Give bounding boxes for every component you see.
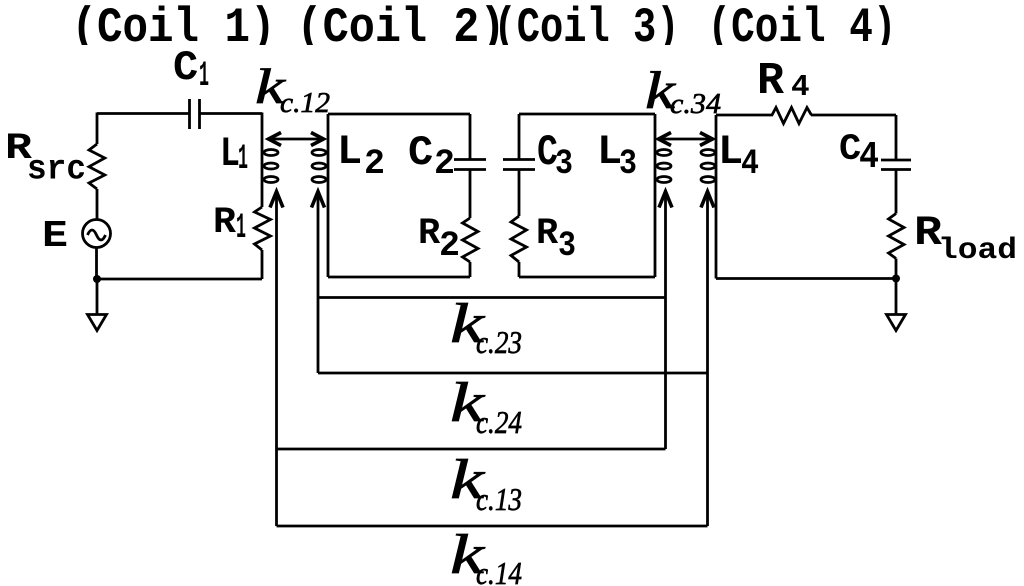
wire loop1 bottom <box>97 278 262 281</box>
svg-text:2: 2 <box>434 144 455 184</box>
svg-text:c.24: c.24 <box>476 404 522 440</box>
resistor Rload <box>889 214 905 259</box>
capacitor C3 <box>503 160 535 170</box>
inductor L1 <box>262 147 278 186</box>
svg-text:4: 4 <box>741 144 759 184</box>
capacitor C2 <box>454 160 486 170</box>
svg-text:R: R <box>536 213 559 255</box>
wire loop2 top <box>328 113 470 116</box>
resistor R3 <box>511 216 527 262</box>
svg-text:C: C <box>839 129 861 171</box>
inductor L3 <box>655 114 671 277</box>
wire loop3 left upper <box>518 114 521 159</box>
wire Rsrc to E <box>96 189 99 219</box>
label C2 <box>408 129 455 184</box>
resistor R4 <box>772 108 811 124</box>
wire R2 to bottom <box>469 262 472 277</box>
coupling line kc24 <box>318 372 708 375</box>
wire loop4 bottom <box>716 277 896 280</box>
label R3 <box>536 213 576 266</box>
svg-text:1: 1 <box>199 56 209 96</box>
wire loop1 left upper <box>96 113 99 145</box>
label R4 <box>757 56 810 107</box>
svg-text:c.12: c.12 <box>280 87 330 119</box>
ground right <box>887 315 906 331</box>
label Rload <box>914 209 1017 268</box>
label C4 <box>839 129 879 179</box>
wire Rload to bottom <box>895 259 898 279</box>
node dot left <box>93 275 101 283</box>
wire C4 to Rload <box>895 170 898 214</box>
svg-text:3: 3 <box>619 144 637 184</box>
resistor R1 <box>255 207 271 250</box>
wire R1 to L1 <box>261 186 264 207</box>
svg-text:L: L <box>718 128 743 176</box>
svg-text:1: 1 <box>238 139 248 179</box>
svg-text:c.14: c.14 <box>476 555 522 586</box>
svg-text:1: 1 <box>236 208 246 248</box>
coupling line kc23 <box>318 296 666 299</box>
svg-text:4: 4 <box>791 70 810 105</box>
arrow line L3 <box>659 192 672 450</box>
arrow line L1 <box>270 192 283 527</box>
svg-text:E: E <box>42 215 68 258</box>
wire E to bottom <box>95 248 98 280</box>
wire loop1 right lower <box>261 250 264 279</box>
label E <box>42 215 68 258</box>
label kc24 <box>450 372 522 440</box>
svg-text:c.23: c.23 <box>476 324 522 360</box>
title (Coil 3) <box>494 0 680 56</box>
label C3 <box>537 128 573 184</box>
inductor L2 <box>312 114 328 277</box>
resistor R2 <box>463 218 479 262</box>
svg-text:c.13: c.13 <box>476 481 522 517</box>
arrow line L2 <box>312 192 325 374</box>
title (Coil 4) <box>708 0 897 56</box>
label L1 <box>220 130 248 179</box>
wire C2 to R2 <box>469 170 472 218</box>
wire loop4 right upper <box>895 115 898 160</box>
wire loop1 top left <box>97 112 189 115</box>
coupling line kc14 <box>277 525 708 528</box>
title (Coil 1) <box>72 0 276 56</box>
ground left stem <box>96 279 99 314</box>
svg-text:4: 4 <box>859 136 879 179</box>
inductor L4 <box>701 115 716 279</box>
label kc12 <box>255 58 330 119</box>
svg-text:L: L <box>220 130 240 178</box>
wire loop1 top right <box>199 112 262 115</box>
source E <box>83 220 111 248</box>
ground left <box>88 315 107 331</box>
svg-text:3: 3 <box>558 226 576 266</box>
wire loop3 top <box>519 113 655 116</box>
label L3 <box>597 128 637 184</box>
ground right stem <box>895 279 898 315</box>
resistor Rsrc <box>89 144 105 189</box>
label L4 <box>718 128 759 184</box>
label kc23 <box>450 293 522 360</box>
svg-text:load: load <box>938 234 1017 268</box>
svg-text:C: C <box>173 44 198 92</box>
label kc14 <box>450 524 522 586</box>
svg-text:R: R <box>213 202 237 244</box>
svg-text:src: src <box>27 150 86 190</box>
svg-text:R: R <box>418 213 441 255</box>
arrow line L4 <box>701 192 714 527</box>
label Rsrc <box>5 128 86 190</box>
label kc13 <box>450 449 522 517</box>
label L2 <box>337 128 385 184</box>
node dot right <box>892 275 900 283</box>
label kc34 <box>645 62 721 120</box>
svg-text:2: 2 <box>439 226 460 266</box>
wire C3 to R3 <box>518 170 521 216</box>
wire loop4 top right <box>811 114 896 117</box>
title (Coil 2) <box>297 0 506 56</box>
wire loop4 top left <box>716 114 773 117</box>
svg-text:c.34: c.34 <box>670 88 721 120</box>
coupling arrow kc12 <box>269 133 324 146</box>
svg-text:3: 3 <box>555 144 573 184</box>
svg-text:C: C <box>408 129 433 177</box>
wire loop3 bottom <box>519 276 655 279</box>
wire loop2 right upper <box>469 114 472 159</box>
capacitor C4 <box>881 160 911 170</box>
wire R3 to bottom <box>518 262 521 277</box>
wire L1 to top <box>261 113 264 148</box>
coupling arrow kc34 <box>659 133 713 146</box>
label R2 <box>418 213 460 266</box>
svg-text:2: 2 <box>364 144 385 184</box>
capacitor C1 <box>190 99 200 129</box>
svg-text:R: R <box>757 56 784 107</box>
label C1 <box>173 44 209 96</box>
label R1 <box>213 202 246 248</box>
wire loop2 bottom <box>328 276 470 279</box>
coupling line kc13 <box>277 448 666 451</box>
svg-text:L: L <box>337 128 362 176</box>
